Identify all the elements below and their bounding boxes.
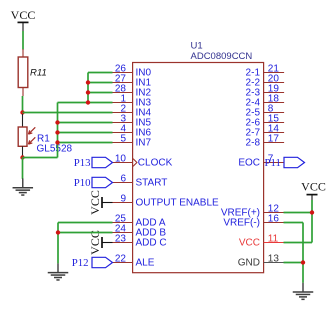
pin 13 (GND) of U1, right side [238,253,284,268]
svg-text:ADD C: ADD C [136,237,167,248]
power port VCC (rotated, at pin y=202.5) [88,190,113,215]
svg-text:VCC: VCC [301,180,326,194]
clock input wedge on CLOCK pin [133,159,137,167]
svg-text:P10: P10 [74,177,91,189]
port P13 [74,157,113,169]
pin 15 (2-6) of U1, right side [246,113,285,128]
junction upper bus/IN3 [86,100,90,104]
power port VCC (top left) [11,8,36,31]
svg-text:16: 16 [268,213,280,224]
wire divider node to IN4 pin [23,112,113,114]
wire VCC to R11 [22,31,24,50]
power port VCC (rotated, at pin y=242.5) [88,230,113,255]
wire bus to IN5 pin [58,122,113,124]
pin 21 (2-1) of U1, right side [246,63,285,78]
svg-text:OUTPUT ENABLE: OUTPUT ENABLE [136,197,219,208]
svg-text:IN7: IN7 [136,137,152,148]
port P10 [74,177,113,189]
svg-text:11: 11 [268,233,279,244]
svg-text:6: 6 [120,173,126,184]
pin 23 (ADD C) of U1, left side [112,233,167,248]
junction ADD A/ADD B ground tie [56,230,60,234]
wire GND pin 13 to ground node [284,262,304,264]
pin 28 (IN2) of U1, left side [112,83,151,98]
wire VREF(+) pin to VCC node [284,212,313,214]
svg-text:10: 10 [115,153,127,164]
pin 16 (VREF(-)) of U1, right side [223,213,284,228]
pin 26 (IN0) of U1, left side [112,63,151,78]
svg-text:GL5528: GL5528 [37,143,73,154]
svg-text:9: 9 [120,193,126,204]
ground symbol (ADD A/B) [48,263,69,280]
junction VCC net / VREF(+) [310,210,314,214]
svg-text:P12: P12 [72,257,89,269]
junction ground net / GND pin [301,260,305,264]
wire bus to IN3 pin [58,102,113,104]
wire ground-net drop below R1 [22,158,24,179]
pin 14 (2-7) of U1, right side [246,123,285,138]
svg-text:START: START [136,177,168,188]
svg-text:GND: GND [238,257,260,268]
pin 2 (IN4) of U1, left side [112,103,151,118]
wire bus to IN7 pin [58,142,113,144]
svg-text:CLOCK: CLOCK [138,157,173,168]
pin 20 (2-2) of U1, right side [246,73,285,88]
wire ADD A drop to ADD B node [57,223,59,264]
pin 24 (ADD B) of U1, left side [112,223,166,238]
wire bus to IN6 pin [58,132,113,134]
wire node to ADD B pin [58,232,113,234]
wire VREF(-) pin rightward [284,222,304,224]
junction bus/IN6 [55,130,59,134]
pin 19 (2-3) of U1, right side [246,83,285,98]
pin 25 (ADD A) of U1, left side [112,213,166,228]
pin 4 (IN6) of U1, left side [112,123,151,138]
svg-text:U1: U1 [191,40,203,51]
pin 6 (START) of U1, left side [112,173,167,188]
pin 11 (VCC) of U1, right side [239,233,284,248]
port P12 [72,257,113,269]
svg-text:EOC: EOC [238,157,260,168]
svg-text:5: 5 [120,133,126,144]
svg-text:VREF(-): VREF(-) [223,217,260,228]
pin 9 (OUTPUT ENABLE) of U1, left side [112,193,219,208]
ground symbol (below R1) [13,179,34,196]
svg-text:VCC: VCC [88,230,102,255]
svg-text:23: 23 [115,233,127,244]
wire upper bus to IN1 pin [88,82,113,84]
photoresistor R1 GL5528 [18,114,35,158]
wire R11 to R1 (divider node) [22,96,24,114]
wire upper bus to IN0 pin [88,72,113,74]
pin 10 (CLOCK) of U1, left side [112,153,172,168]
wire ADD A pin leftward [58,222,113,224]
svg-text:ALE: ALE [136,257,155,268]
junction divider node / IN4 tap [20,110,24,114]
power port VCC (right) [301,180,326,200]
svg-text:R11: R11 [30,68,47,79]
wire VCC port down to VREF(+) node [311,200,313,243]
junction bus/IN7 [55,140,59,144]
resistor R11 [18,49,28,96]
pin 18 (2-4) of U1, right side [246,93,285,108]
IC U1 ADC0809CCN body [133,63,264,273]
pin 17 (2-8) of U1, right side [246,133,285,148]
svg-text:13: 13 [268,253,280,264]
junction bus/IN5 [55,120,59,124]
pin 27 (IN1) of U1, left side [112,73,151,88]
port P11 [265,157,305,169]
wire vertical bus (IN3/IN5/IN6/IN7 ground tie) [57,103,59,158]
pin 5 (IN7) of U1, left side [112,133,151,148]
pin 3 (IN5) of U1, left side [112,113,151,128]
svg-text:VCC: VCC [239,237,260,248]
svg-text:P13: P13 [74,157,91,169]
wire R1 bottom to vertical bus [23,157,58,159]
pin 12 (VREF(+)) of U1, right side [221,203,284,218]
svg-text:P11: P11 [265,157,281,169]
svg-text:VCC: VCC [88,190,102,215]
wire upper bus to IN2 pin [88,92,113,94]
pin 22 (ALE) of U1, left side [112,253,155,268]
junction upper bus/IN1 [86,80,90,84]
svg-text:VCC: VCC [11,8,36,22]
junction R1 bottom / ground net [20,155,24,159]
wire VCC net down to VCC pin 11 [284,242,313,244]
wire VREF(-) drop to ground node [302,223,304,283]
svg-text:ADC0809CCN: ADC0809CCN [191,51,253,62]
wire upper bus (IN0-IN3 tie), vertical [87,73,89,103]
svg-text:2-8: 2-8 [246,137,261,148]
svg-text:22: 22 [115,253,127,264]
pin 1 (IN3) of U1, left side [112,93,151,108]
svg-text:17: 17 [268,133,280,144]
pin 8 (2-5) of U1, right side [246,103,285,118]
junction upper bus/IN2 [86,90,90,94]
ground symbol (right GND) [293,283,314,300]
pin 7 (EOC) of U1, right side [238,153,284,168]
